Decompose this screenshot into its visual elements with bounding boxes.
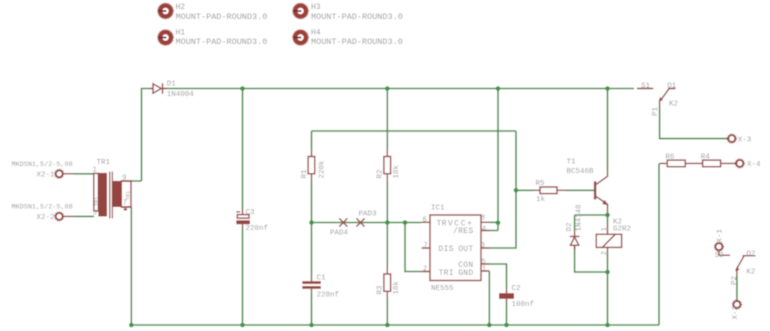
svg-text:O1: O1 — [667, 83, 677, 91]
svg-text:MKDSN1,5/2-5,08: MKDSN1,5/2-5,08 — [12, 203, 73, 211]
svg-text:6: 6 — [423, 217, 427, 225]
svg-text:K2: K2 — [669, 100, 678, 108]
svg-text:R2: R2 — [377, 169, 385, 178]
svg-text:TR1: TR1 — [97, 159, 111, 167]
svg-text:1N4004: 1N4004 — [167, 91, 195, 99]
svg-text:MOUNT-PAD-ROUND3.0: MOUNT-PAD-ROUND3.0 — [176, 12, 268, 22]
svg-text:4: 4 — [482, 226, 486, 234]
svg-text:10k: 10k — [393, 164, 401, 178]
svg-text:R1: R1 — [301, 169, 309, 179]
svg-text:8: 8 — [481, 215, 485, 223]
svg-text:7: 7 — [123, 200, 127, 208]
svg-text:1k: 1k — [536, 196, 546, 204]
svg-text:X-4: X-4 — [747, 161, 761, 169]
svg-text:220k: 220k — [319, 160, 327, 179]
svg-text:X2-2: X2-2 — [37, 214, 55, 222]
svg-text:GND: GND — [458, 269, 473, 278]
svg-text:R6: R6 — [665, 154, 675, 162]
svg-text:H2: H2 — [176, 3, 186, 12]
svg-text:PAD3: PAD3 — [359, 211, 378, 219]
svg-text:DIS: DIS — [439, 245, 454, 254]
svg-text:K2: K2 — [746, 268, 755, 276]
svg-text:S1: S1 — [641, 83, 651, 91]
svg-text:R4: R4 — [701, 154, 711, 162]
svg-text:5: 5 — [93, 209, 97, 217]
svg-text:C3: C3 — [246, 209, 256, 217]
svg-text:X-3: X-3 — [738, 136, 752, 144]
svg-text:220nf: 220nf — [317, 292, 340, 300]
svg-text:100nf: 100nf — [512, 301, 535, 309]
svg-text:X2-1: X2-1 — [37, 172, 56, 180]
svg-text:7: 7 — [424, 242, 428, 250]
svg-text:X-2: X-2 — [732, 306, 740, 320]
svg-text:MOUNT-PAD-ROUND3.0: MOUNT-PAD-ROUND3.0 — [176, 37, 268, 47]
svg-text:PAD4: PAD4 — [330, 230, 349, 238]
svg-text:C1: C1 — [317, 274, 327, 282]
svg-text:TR1: TR1 — [94, 197, 100, 206]
svg-text:O2: O2 — [746, 250, 755, 258]
svg-text:220nf: 220nf — [246, 225, 269, 233]
svg-text:H4: H4 — [311, 29, 321, 38]
svg-text:TRI: TRI — [439, 269, 454, 278]
svg-text:MOUNT-PAD-ROUND3.0: MOUNT-PAD-ROUND3.0 — [311, 37, 403, 47]
svg-text:MKDSN1,5/2-5,08: MKDSN1,5/2-5,08 — [12, 161, 73, 169]
svg-text:TR: TR — [437, 220, 447, 229]
svg-text:G2R2: G2R2 — [613, 226, 631, 234]
svg-text:MOUNT-PAD-ROUND3.0: MOUNT-PAD-ROUND3.0 — [311, 12, 403, 22]
svg-text:P1: P1 — [652, 106, 660, 116]
svg-text:/RES: /RES — [453, 227, 473, 236]
svg-text:2: 2 — [601, 251, 609, 255]
svg-text:C2: C2 — [512, 285, 521, 293]
svg-text:1: 1 — [482, 265, 486, 273]
svg-text:OUT: OUT — [458, 245, 473, 254]
svg-text:X-1: X-1 — [716, 228, 724, 242]
svg-text:R3: R3 — [377, 285, 385, 295]
svg-text:1: 1 — [93, 167, 97, 175]
svg-text:S2: S2 — [715, 252, 724, 260]
svg-text:IC1: IC1 — [431, 205, 445, 213]
svg-text:3: 3 — [481, 242, 485, 250]
svg-text:D2: D2 — [566, 222, 574, 231]
svg-text:2: 2 — [423, 266, 427, 274]
svg-text:BC546B: BC546B — [567, 168, 595, 176]
svg-text:H3: H3 — [311, 3, 321, 12]
svg-text:T1: T1 — [567, 159, 577, 167]
svg-text:R5: R5 — [536, 180, 546, 188]
svg-text:TR1: TR1 — [126, 191, 132, 200]
svg-text:NE555: NE555 — [431, 285, 454, 293]
svg-text:1: 1 — [601, 227, 609, 231]
svg-text:1N4148: 1N4148 — [576, 204, 584, 231]
svg-text:H1: H1 — [176, 29, 186, 38]
svg-text:D1: D1 — [167, 81, 177, 89]
svg-text:P2: P2 — [731, 276, 739, 285]
svg-text:9: 9 — [122, 175, 126, 183]
svg-text:10k: 10k — [393, 280, 401, 294]
